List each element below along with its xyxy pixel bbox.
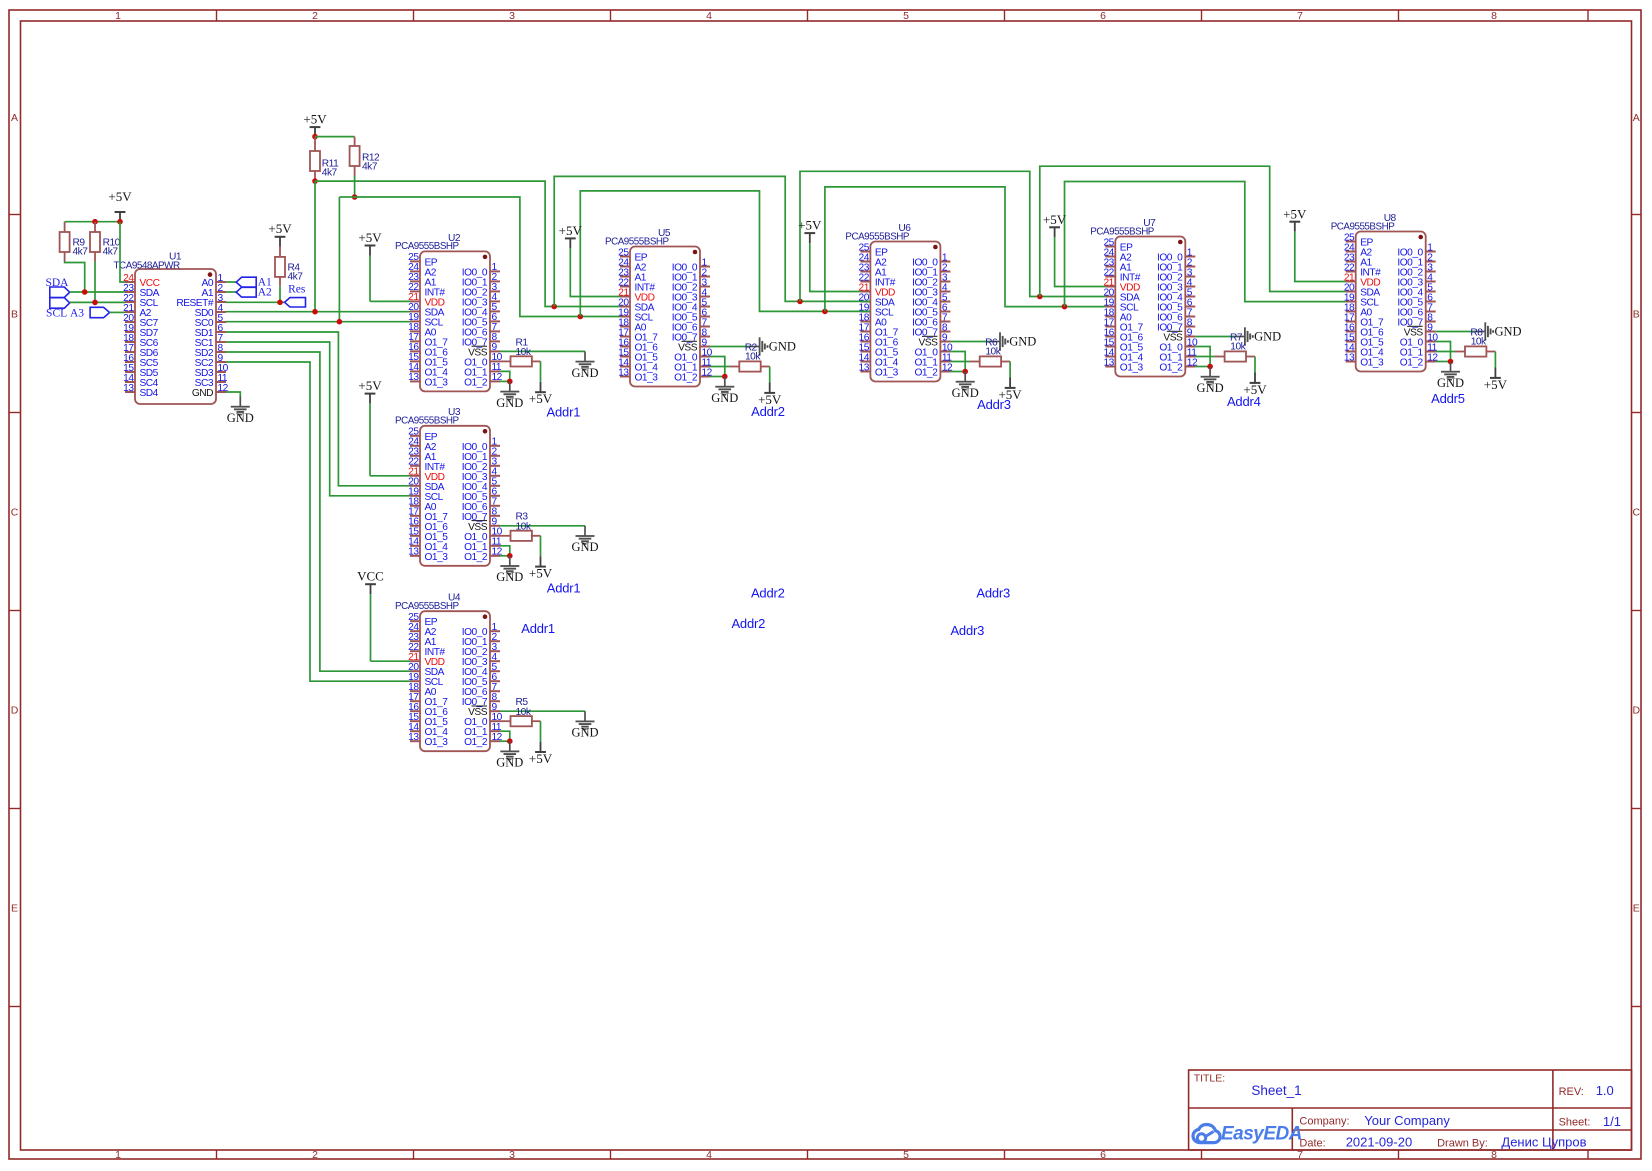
U3 left pin 25 EP [410, 435, 420, 437]
U4 pin1 indicator dot [483, 614, 488, 619]
U1 left pin 19 SD7 [125, 331, 135, 333]
U3 left pin 21 VDD [410, 475, 420, 477]
svg-text:2: 2 [312, 1149, 318, 1161]
U1 left pin 24 VCC [125, 281, 135, 283]
U4 right pin 12 O1_2 [490, 740, 500, 742]
U2 right pin 10 O1_0 [490, 360, 500, 362]
U8 right pin 4 IO0_3 [1426, 281, 1436, 283]
junction R12 bottom [352, 194, 358, 200]
U2 left pin 22 INT# [410, 290, 420, 292]
svg-text:+5V: +5V [1283, 206, 1307, 221]
wire R6 to +5V [1009, 362, 1011, 378]
U4 right pin 3 IO0_2 [490, 650, 500, 652]
power +5V below R5 [540, 742, 542, 752]
U7 right pin 7 IO0_6 [1185, 316, 1195, 318]
U5 pin1 indicator dot [693, 250, 698, 255]
junction U7 SCL branch [1062, 304, 1068, 310]
U8 left pin 18 A0 [1346, 311, 1356, 313]
wire SCL flag to U1 pin 22 [70, 301, 125, 303]
net flag A1 [236, 277, 256, 287]
U2 right pin 3 IO0_2 [490, 290, 500, 292]
wire R8 to +5V [1494, 352, 1496, 368]
U8 right pin 2 IO0_1 [1426, 261, 1436, 263]
U8 left pin 16 O1_6 [1346, 331, 1356, 333]
junction U6 SDA branch [797, 299, 803, 305]
resistor R5 body 10k [500, 720, 511, 722]
U8 right pin 5 IO0_4 [1426, 291, 1436, 293]
U7 right pin 8 IO0_7 [1185, 326, 1195, 328]
wire U7 SDA to U8 SDA [1040, 166, 1346, 296]
svg-text:+5V: +5V [529, 751, 553, 766]
U4 right pin 4 IO0_3 [490, 660, 500, 662]
frame column tick 6 [1201, 10, 1203, 21]
net flag A2 [236, 287, 256, 297]
frame row tick C [9, 610, 21, 612]
U3 left pin 19 SCL [410, 495, 420, 497]
U8 pin1 indicator dot [1418, 235, 1423, 240]
svg-text:Addr2: Addr2 [751, 404, 785, 419]
wire SD2: U1 pin8 to U4 SDA [226, 352, 410, 671]
svg-text:D: D [11, 704, 19, 716]
U1 right pin 1 A0 [216, 281, 226, 283]
resistor R10 4k7 [94, 222, 96, 232]
U2 right pin 1 IO0_0 [490, 270, 500, 272]
U5 right pin 3 IO0_2 [700, 286, 710, 288]
resistor R12 4k7 [354, 137, 356, 146]
U6 left pin 18 A0 [860, 321, 870, 323]
junction R11 bottom [312, 178, 318, 184]
svg-text:+5V: +5V [108, 189, 132, 204]
svg-text:+5V: +5V [303, 112, 327, 127]
svg-text:13: 13 [859, 362, 870, 373]
U2 right pin 4 IO0_3 [490, 300, 500, 302]
U7 left pin 15 O1_5 [1105, 346, 1115, 348]
IC U3 body PCA9555BSHP [420, 426, 490, 566]
U1 right pin 6 SD1 [216, 331, 226, 333]
svg-text:O1_2: O1_2 [464, 552, 488, 563]
U7 pin1 indicator dot [1178, 240, 1183, 245]
svg-text:Addr4: Addr4 [1227, 394, 1261, 409]
svg-text:PCA9555BSHP: PCA9555BSHP [845, 231, 909, 242]
svg-text:D: D [1633, 704, 1641, 716]
svg-text:Addr2: Addr2 [731, 616, 765, 631]
U5 left pin 16 O1_6 [620, 346, 630, 348]
resistor R2 body 10k [710, 366, 729, 368]
wire U7 O1_0/O1_2 to GND [1195, 347, 1210, 367]
U3 left pin 17 O1_7 [410, 515, 420, 517]
svg-text:O1_3: O1_3 [1120, 363, 1144, 374]
U7 left pin 17 O1_7 [1105, 326, 1115, 328]
resistor R9 4k7 [64, 222, 66, 232]
U5 right pin 4 IO0_3 [700, 296, 710, 298]
junction at U5 pin 12 [722, 374, 728, 380]
junction at U6 pin 12 [962, 369, 968, 375]
junction SCL/R10 [92, 300, 98, 306]
frame row tick A [9, 214, 21, 216]
U5 left pin 24 A2 [620, 266, 630, 268]
svg-text:+5V: +5V [798, 218, 822, 233]
U7 left pin 19 SCL [1105, 306, 1115, 308]
ground GND at U7 VSS (sideways) [1234, 336, 1244, 338]
U5 left pin 22 INT# [620, 286, 630, 288]
wire U1 pin12 GND [226, 392, 240, 397]
U7 right pin 6 IO0_5 [1185, 306, 1195, 308]
wire R7 to +5V [1254, 357, 1256, 373]
svg-text:C: C [1633, 506, 1641, 518]
U8 right pin 6 IO0_5 [1426, 301, 1436, 303]
U8 left pin 23 A1 [1346, 261, 1356, 263]
U7 right pin 9 VSS [1185, 336, 1195, 338]
U1 left pin 14 SC4 [125, 381, 135, 383]
U4 left pin 24 A2 [410, 630, 420, 632]
U3 left pin 20 SDA [410, 485, 420, 487]
U8 right pin 12 O1_2 [1426, 361, 1436, 363]
U4 right pin 6 IO0_5 [490, 680, 500, 682]
resistor R1 body 10k [500, 360, 511, 362]
U7 right pin 12 O1_2 [1185, 366, 1195, 368]
U5 right pin 11 O1_1 [700, 366, 710, 368]
U2 left pin 18 A0 [410, 330, 420, 332]
U4 left pin 21 VDD [410, 660, 420, 662]
ground GND below U4 [509, 741, 511, 751]
junction at U4 pin 12 [507, 738, 513, 744]
U8 left pin 21 VDD [1346, 281, 1356, 283]
ground GND at U4 VSS [584, 711, 586, 721]
U2 left pin 15 O1_5 [410, 360, 420, 362]
ground GND at U2 VSS [584, 351, 586, 361]
svg-text:GND: GND [1437, 376, 1464, 390]
wire R2 to +5V [769, 367, 771, 383]
U7 left pin 21 VDD [1105, 286, 1115, 288]
ground GND at U6 VSS (sideways) [989, 341, 999, 343]
junction at U3 pin 12 [507, 553, 513, 559]
svg-text:4: 4 [706, 10, 712, 22]
frame column tick 4 [807, 10, 809, 21]
wire U6 O1_0/O1_2 to GND [950, 352, 965, 372]
U6 left pin 22 INT# [860, 281, 870, 283]
U2 left pin 23 A1 [410, 280, 420, 282]
power +5V below R2 [769, 383, 771, 393]
U3 left pin 14 O1_4 [410, 545, 420, 547]
U4 right pin 8 IO0_7 [490, 700, 500, 702]
svg-text:E: E [1633, 902, 1640, 914]
U4 left pin 13 O1_3 [410, 740, 420, 742]
wire U5 O1_0/O1_2 to GND [710, 357, 725, 377]
svg-text:O1_2: O1_2 [914, 368, 938, 379]
U6 left pin 23 A1 [860, 271, 870, 273]
svg-text:B: B [11, 308, 18, 320]
resistor R8 body 10k [1436, 351, 1455, 353]
svg-text:O1_2: O1_2 [464, 377, 488, 388]
U4 left pin 19 SCL [410, 680, 420, 682]
U6 left pin 15 O1_5 [860, 351, 870, 353]
U4 left pin 18 A0 [410, 690, 420, 692]
svg-text:+5V: +5V [268, 221, 292, 236]
power +5V below R3 [540, 556, 542, 566]
U7 left pin 20 SDA [1105, 296, 1115, 298]
svg-text:8: 8 [1491, 1149, 1497, 1161]
wire SD1: U1 pin6 to U3 SDA [226, 332, 410, 486]
frame column tick 1 [216, 10, 218, 21]
svg-text:GND: GND [496, 570, 523, 584]
wire U8 O1_0/O1_2 to GND [1436, 342, 1451, 362]
ground GND below U7 [1209, 367, 1211, 377]
svg-text:Addr1: Addr1 [547, 580, 581, 595]
wire R4 to RESET# [279, 286, 281, 302]
wire U3 O1_1/O1_2 to GND [500, 546, 510, 556]
U6 right pin 1 IO0_0 [940, 261, 950, 263]
U7 right pin 5 IO0_4 [1185, 296, 1195, 298]
wire R1 to +5V [540, 361, 542, 381]
U4 left pin 22 INT# [410, 650, 420, 652]
U5 left pin 13 O1_3 [620, 376, 630, 378]
svg-text:GND: GND [571, 540, 598, 554]
svg-text:Addr1: Addr1 [547, 405, 581, 420]
svg-text:E: E [11, 902, 18, 914]
U5 left pin 18 A0 [620, 326, 630, 328]
svg-text:13: 13 [1103, 357, 1114, 368]
svg-text:O1_3: O1_3 [425, 737, 449, 748]
U6 left pin 21 VDD [860, 291, 870, 293]
U8 left pin 14 O1_4 [1346, 351, 1356, 353]
ground GND below U6 [964, 372, 966, 382]
IC U5 body PCA9555BSHP [630, 247, 700, 387]
svg-text:GND: GND [1495, 325, 1522, 339]
U5 right pin 7 IO0_6 [700, 326, 710, 328]
svg-text:+5V: +5V [358, 230, 382, 245]
svg-text:O1_3: O1_3 [425, 377, 449, 388]
U3 right pin 6 IO0_5 [490, 495, 500, 497]
svg-text:GND: GND [227, 411, 254, 425]
U4 left pin 23 A1 [410, 640, 420, 642]
U3 right pin 11 O1_1 [490, 545, 500, 547]
U3 right pin 4 IO0_3 [490, 475, 500, 477]
U7 right pin 2 IO0_1 [1185, 266, 1195, 268]
U2 right pin 12 O1_2 [490, 380, 500, 382]
U8 left pin 17 O1_7 [1346, 321, 1356, 323]
svg-text:PCA9555BSHP: PCA9555BSHP [395, 416, 459, 427]
U8 right pin 7 IO0_6 [1426, 311, 1436, 313]
junction U6 SCL branch [822, 309, 828, 315]
U3 right pin 8 IO0_7 [490, 515, 500, 517]
U7 right pin 10 O1_0 [1185, 346, 1195, 348]
junction U5 SDA branch [551, 304, 557, 310]
U4 right pin 1 IO0_0 [490, 630, 500, 632]
svg-text:13: 13 [618, 367, 629, 378]
U5 left pin 14 O1_4 [620, 366, 630, 368]
svg-text:GND: GND [571, 366, 598, 380]
svg-text:Денис Цупров: Денис Цупров [1501, 1135, 1586, 1150]
wire U1 pin3 RESET# to Res flag [226, 301, 286, 303]
junction R10 top [92, 219, 98, 225]
wire R12 node to U5 SCL [355, 197, 620, 317]
wire U2 O1_1/O1_2 to GND [500, 371, 510, 381]
resistor R6 body 10k [950, 361, 969, 363]
U3 right pin 7 IO0_6 [490, 505, 500, 507]
U8 left pin 24 A2 [1346, 251, 1356, 253]
U2 right pin 7 IO0_6 [490, 330, 500, 332]
junction +5V stem [117, 219, 123, 225]
junction U5 SCL branch [578, 314, 584, 320]
U7 left pin 23 A1 [1105, 266, 1115, 268]
wire +5V to U1 VCC [120, 222, 125, 282]
U5 right pin 1 IO0_0 [700, 266, 710, 268]
U3 left pin 16 O1_6 [410, 525, 420, 527]
frame row tick B [9, 412, 21, 414]
U4 left pin 16 O1_6 [410, 710, 420, 712]
wire R12 to SC0 bus [354, 176, 356, 197]
svg-text:A2: A2 [258, 287, 272, 299]
U3 right pin 3 IO0_2 [490, 465, 500, 467]
wire U4 O1_1/O1_2 to GND [500, 731, 510, 741]
svg-text:Sheet:: Sheet: [1559, 1117, 1591, 1129]
U7 left pin 13 O1_3 [1105, 366, 1115, 368]
svg-text:Res: Res [288, 283, 306, 295]
svg-text:O1_3: O1_3 [875, 368, 899, 379]
U5 left pin 15 O1_5 [620, 356, 630, 358]
U5 right pin 6 IO0_5 [700, 316, 710, 318]
frame column tick 3 [610, 10, 612, 21]
svg-text:Addr3: Addr3 [950, 623, 984, 638]
junction +5V/R11 [312, 134, 318, 140]
wire U7 VSS to GND [1195, 336, 1234, 338]
U1 left pin 23 SDA [125, 291, 135, 293]
U2 left pin 20 SDA [410, 310, 420, 312]
U2 pin1 indicator dot [483, 255, 488, 260]
U2 right pin 2 IO0_1 [490, 280, 500, 282]
wire U5 VSS to GND [710, 346, 749, 348]
svg-text:7: 7 [1297, 1149, 1303, 1161]
wire U6 SCL to U7 SCL [825, 187, 1105, 312]
frame column tick 8 [1587, 10, 1589, 21]
wire R5 to +5V [540, 721, 542, 741]
junction SD0/R11 [312, 309, 318, 315]
svg-text:PCA9555BSHP: PCA9555BSHP [1090, 226, 1154, 237]
wire R3 to +5V [540, 536, 542, 556]
svg-text:6: 6 [1100, 1149, 1106, 1161]
resistor R4 4k7 [279, 247, 281, 257]
svg-text:Drawn By:: Drawn By: [1437, 1137, 1488, 1149]
power +5V below R7 [1254, 373, 1256, 383]
ground GND below U8 [1450, 362, 1452, 372]
svg-text:SCL: SCL [46, 308, 67, 320]
U6 right pin 2 IO0_1 [940, 271, 950, 273]
wire A3 flag to U1 pin 21 [110, 311, 125, 313]
U6 right pin 3 IO0_2 [940, 281, 950, 283]
wire U6 SDA to U7 SDA [800, 171, 1105, 301]
ground GND below U2 [509, 381, 511, 391]
svg-text:O1_3: O1_3 [635, 373, 659, 384]
U6 right pin 9 VSS [940, 341, 950, 343]
frame column tick 7 [1398, 10, 1400, 21]
U1 left pin 20 SC7 [125, 321, 135, 323]
svg-text:2: 2 [312, 10, 318, 22]
U4 left pin 17 O1_7 [410, 700, 420, 702]
U3 right pin 10 O1_0 [490, 535, 500, 537]
U1 pin1 indicator dot [208, 272, 213, 277]
U2 right pin 6 IO0_5 [490, 320, 500, 322]
U8 right pin 3 IO0_2 [1426, 271, 1436, 273]
IC U8 body PCA9555BSHP [1356, 232, 1426, 372]
U7 left pin 25 EP [1105, 246, 1115, 248]
U2 right pin 8 IO0_7 [490, 340, 500, 342]
IC U2 body PCA9555BSHP [420, 251, 490, 391]
U6 left pin 14 O1_4 [860, 361, 870, 363]
svg-text:5: 5 [903, 10, 909, 22]
svg-text:C: C [11, 506, 19, 518]
power +5V below R6 [1009, 378, 1011, 388]
U5 right pin 2 IO0_1 [700, 276, 710, 278]
svg-text:+5V: +5V [358, 378, 382, 393]
U7 right pin 1 IO0_0 [1185, 256, 1195, 258]
svg-text:TCA9548APWR: TCA9548APWR [114, 261, 180, 272]
U5 right pin 10 O1_0 [700, 356, 710, 358]
svg-text:8: 8 [1491, 10, 1497, 22]
wire +5V rail to R9 R10 [119, 221, 121, 223]
U6 right pin 12 O1_2 [940, 371, 950, 373]
wire SDA flag to U1 pin 23 [70, 291, 125, 293]
title block outline [1189, 1070, 1632, 1150]
svg-text:SDA: SDA [45, 277, 69, 289]
U4 right pin 5 IO0_4 [490, 670, 500, 672]
U7 left pin 18 A0 [1105, 316, 1115, 318]
U1 right pin 7 SC1 [216, 341, 226, 343]
svg-text:TITLE:: TITLE: [1194, 1073, 1226, 1085]
frame row tick D [9, 808, 21, 810]
IC U4 body PCA9555BSHP [420, 611, 490, 751]
U2 left pin 13 O1_3 [410, 380, 420, 382]
wire SC1: U1 pin7 to U3 SCL [226, 342, 410, 496]
wire U5 SCL to U6 SCL [580, 191, 870, 317]
U3 right pin 5 IO0_4 [490, 485, 500, 487]
junction SC0/R12 [337, 319, 343, 325]
U5 right pin 12 O1_2 [700, 376, 710, 378]
U1 right pin 10 SD3 [216, 371, 226, 373]
junction at U8 pin 12 [1448, 359, 1454, 365]
U4 left pin 25 EP [410, 620, 420, 622]
ground GND below U3 [509, 556, 511, 566]
U1 right pin 8 SD2 [216, 351, 226, 353]
U2 left pin 19 SCL [410, 320, 420, 322]
svg-text:4: 4 [706, 1149, 712, 1161]
svg-text:GND: GND [1009, 335, 1036, 349]
ground GND at U3 VSS [584, 526, 586, 536]
U5 left pin 20 SDA [620, 306, 630, 308]
U3 left pin 15 O1_5 [410, 535, 420, 537]
svg-text:SD4: SD4 [140, 388, 159, 399]
svg-text:Addr3: Addr3 [976, 585, 1010, 600]
wire R11 node to U5 SDA [315, 181, 620, 306]
U2 right pin 5 IO0_4 [490, 310, 500, 312]
svg-text:A: A [1633, 112, 1640, 124]
svg-text:Addr3: Addr3 [977, 397, 1011, 412]
U4 right pin 2 IO0_1 [490, 640, 500, 642]
U8 right pin 8 IO0_7 [1426, 321, 1436, 323]
U8 right pin 11 O1_1 [1426, 351, 1436, 353]
svg-text:3: 3 [509, 10, 515, 22]
U3 right pin 1 IO0_0 [490, 445, 500, 447]
net flag Res [285, 298, 306, 307]
U2 left pin 25 EP [410, 260, 420, 262]
svg-text:13: 13 [1344, 352, 1355, 363]
U6 left pin 16 O1_6 [860, 341, 870, 343]
U5 left pin 19 SCL [620, 316, 630, 318]
U6 left pin 17 O1_7 [860, 331, 870, 333]
svg-text:PCA9555BSHP: PCA9555BSHP [395, 601, 459, 612]
U1 left pin 18 SC6 [125, 341, 135, 343]
wire R12 node to SCL drop [339, 196, 354, 198]
U3 left pin 23 A1 [410, 455, 420, 457]
